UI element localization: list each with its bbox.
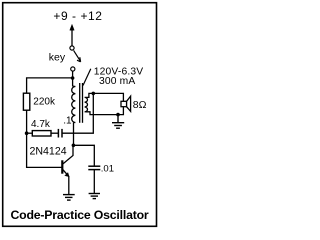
wire switch to node A: [72, 71, 74, 86]
resistor 220k: [23, 93, 29, 110]
node D junction: [116, 113, 120, 117]
transformer T1 secondary: [85, 97, 88, 111]
transformer core: [80, 83, 83, 123]
wire node B to 4.7k: [27, 132, 33, 134]
svg-text:.1: .1: [63, 115, 72, 126]
ground emitter: [63, 195, 75, 201]
wire node A to 220k: [27, 78, 73, 94]
wire primary bottom to collector node: [73, 123, 75, 146]
svg-text:key: key: [49, 51, 66, 63]
wire secondary bottom to speaker: [86, 107, 124, 115]
transformer T1 primary: [72, 86, 76, 122]
capacitor C3 .01: [88, 166, 100, 169]
node E junction: [72, 144, 76, 148]
ground speaker: [112, 115, 124, 129]
svg-text:300 mA: 300 mA: [99, 76, 135, 87]
wire collector node to C3: [73, 145, 94, 166]
svg-text:4.7k: 4.7k: [31, 119, 51, 130]
node A junction: [71, 76, 75, 80]
key switch S1: [70, 46, 81, 71]
svg-text:220k: 220k: [33, 97, 56, 108]
wire C3 to ground: [93, 170, 95, 194]
svg-text:2N4124: 2N4124: [30, 145, 67, 157]
callout leader line: [83, 69, 91, 86]
resistor 4.7k: [32, 131, 51, 136]
svg-text:8Ω: 8Ω: [133, 99, 147, 111]
capacitor C2 .1: [58, 129, 62, 138]
svg-text:Code-Practice Oscillator: Code-Practice Oscillator: [10, 208, 148, 222]
transistor Q1 2N4124: [62, 145, 73, 194]
wire C2 to feedback node: [62, 93, 93, 133]
ground C3: [89, 194, 100, 199]
svg-text:+9 - +12: +9 - +12: [53, 9, 102, 23]
wire 220k to base node: [27, 110, 62, 167]
supply arrow: [70, 24, 74, 45]
wire secondary top to speaker: [85, 93, 123, 101]
wire 4.7k to C2: [51, 132, 58, 134]
svg-text:.01: .01: [101, 164, 114, 175]
speaker LS1: [121, 96, 131, 111]
node C junction: [92, 92, 96, 96]
node B junction: [25, 131, 29, 135]
